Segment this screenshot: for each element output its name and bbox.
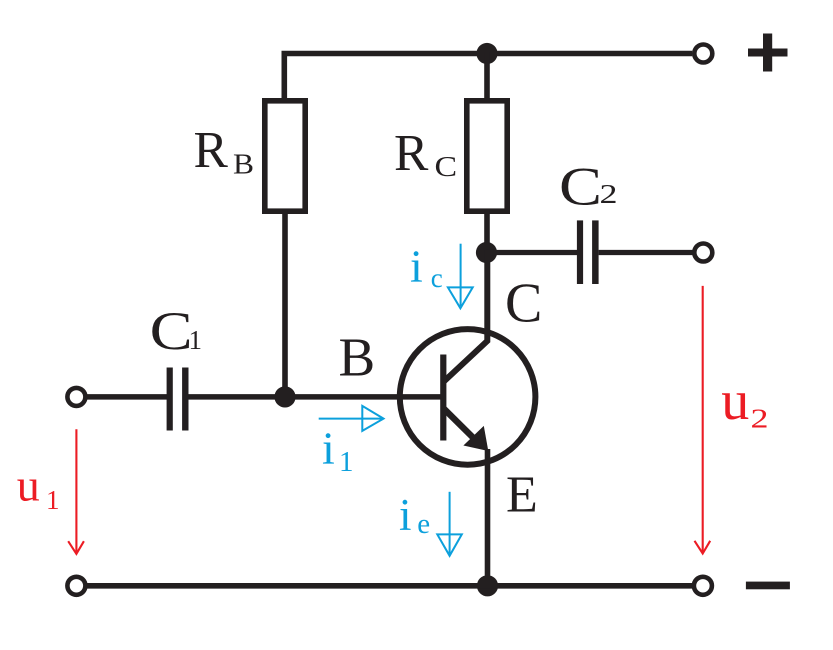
wire: top rail to R_C: [484, 52, 490, 101]
current arrow ie (emitter current): [449, 492, 451, 554]
current arrow i1 (base current): [319, 418, 383, 420]
wire: R_B to base node: [282, 210, 288, 398]
wire: collector node to C2: [486, 250, 578, 255]
&#8722; polarity symbol: [746, 582, 790, 590]
svg-text:i: i: [410, 240, 423, 291]
terminal: output (u2, mid right): [694, 244, 712, 262]
svg-text:B: B: [339, 327, 376, 388]
svg-text:i: i: [322, 423, 335, 474]
terminal: ground (bottom left): [67, 577, 85, 595]
svg-text:E: E: [506, 467, 538, 524]
wire: bottom ground rail: [87, 583, 692, 589]
junction node: collector / C2: [476, 242, 497, 263]
junction node: top rail / R_C: [476, 43, 497, 64]
svg-text:R: R: [194, 122, 229, 179]
resistor R_C: [467, 101, 507, 211]
terminal: input (u1, left): [67, 388, 85, 406]
wire: C2 to u2 output terminal: [599, 250, 693, 255]
terminal: + supply (top right): [694, 45, 712, 63]
wire: input terminal to C1: [86, 394, 167, 400]
svg-text:u: u: [721, 370, 749, 432]
svg-text:1: 1: [189, 325, 203, 355]
current arrow ic (collector current): [460, 244, 462, 306]
wire: collector lead into transistor (vertical + diagonal to base bar): [444, 250, 488, 382]
svg-text:c: c: [431, 263, 443, 293]
junction node: emitter / ground rail: [477, 575, 498, 596]
capacitor C1: [167, 368, 173, 431]
svg-text:i: i: [399, 490, 412, 540]
svg-text:1: 1: [339, 446, 354, 478]
svg-text:u: u: [17, 460, 40, 511]
svg-text:C: C: [559, 157, 602, 217]
transistor base bar: [440, 355, 446, 441]
wire: top supply rail from R_B corner to + terminal: [284, 54, 692, 100]
svg-text:R: R: [394, 125, 429, 182]
wire: C1 to transistor base: [189, 394, 444, 400]
svg-text:e: e: [417, 508, 430, 540]
+ polarity symbol: [748, 34, 788, 72]
svg-text:1: 1: [46, 485, 60, 515]
capacitor C2: [577, 220, 583, 284]
svg-text:C: C: [505, 273, 542, 335]
svg-text:C: C: [150, 301, 193, 361]
voltage arrow u2 (output voltage): [702, 286, 704, 554]
svg-text:2: 2: [600, 179, 618, 209]
wire: R_C to collector node: [484, 210, 490, 254]
terminal: ground (bottom right): [694, 577, 712, 595]
wire: emitter to ground rail: [485, 449, 491, 586]
svg-text:2: 2: [751, 403, 769, 433]
svg-text:C: C: [435, 151, 458, 183]
junction node: base node: [274, 386, 295, 407]
voltage arrow u1 (input voltage): [75, 429, 77, 554]
transistor Q1 body circle: [400, 329, 536, 465]
resistor R_B: [265, 101, 305, 211]
transistor emitter line with arrowhead: [444, 409, 476, 441]
svg-text:B: B: [233, 149, 254, 181]
